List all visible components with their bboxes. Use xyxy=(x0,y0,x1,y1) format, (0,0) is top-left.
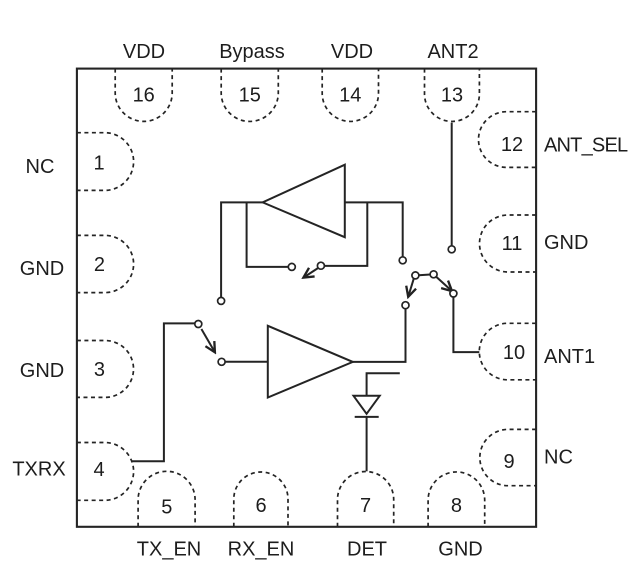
svg-text:ANT2: ANT2 xyxy=(427,41,478,63)
pin 5 pad xyxy=(138,471,195,526)
pin 9 pad xyxy=(480,429,536,485)
svg-text:2: 2 xyxy=(94,254,105,276)
svg-text:16: 16 xyxy=(133,84,155,106)
node C: bar left xyxy=(412,272,419,279)
svg-text:GND: GND xyxy=(438,539,482,561)
svg-text:ANT_SEL: ANT_SEL xyxy=(544,134,628,156)
svg-text:GND: GND xyxy=(544,232,588,254)
pin 11 pad xyxy=(480,215,537,272)
wire TXRX pin 4 to switch blade xyxy=(132,323,195,461)
svg-text:11: 11 xyxy=(502,233,523,255)
pin 14 pad xyxy=(322,69,378,122)
svg-text:7: 7 xyxy=(360,495,371,517)
wire bypass switch right branch xyxy=(324,202,367,266)
svg-text:4: 4 xyxy=(93,459,104,481)
svg-text:NC: NC xyxy=(26,156,55,178)
node F: U2 output terminal xyxy=(402,302,409,309)
svg-text:1: 1 xyxy=(93,153,104,175)
diode D1 (detector) xyxy=(354,396,380,414)
svg-text:ANT1: ANT1 xyxy=(544,346,595,368)
switch arrow bypass blade xyxy=(303,268,318,278)
svg-text:TX_EN: TX_EN xyxy=(137,539,201,561)
op-amp U2 (TX amplifier, pointing right) xyxy=(268,326,353,398)
node: bypass left contact xyxy=(288,263,295,270)
wire U2 input node xyxy=(225,361,268,363)
svg-text:DET: DET xyxy=(347,539,387,561)
pin 3 pad xyxy=(77,341,134,398)
pin 15 pad xyxy=(221,69,278,122)
svg-text:VDD: VDD xyxy=(123,41,165,63)
svg-text:GND: GND xyxy=(20,360,64,382)
node B: ANT2 terminal xyxy=(448,246,455,253)
svg-text:14: 14 xyxy=(339,84,361,106)
svg-text:VDD: VDD xyxy=(331,41,373,63)
wire node E to ANT1 pin 10 xyxy=(453,297,479,352)
pin 6 pad xyxy=(234,472,288,527)
switch arrow TXRX blade xyxy=(201,329,215,352)
wire diode to DET pin 7 xyxy=(366,417,368,471)
pin 1 pad xyxy=(77,133,134,191)
wire U1 input from switch A xyxy=(345,202,403,257)
node: U2 input terminal xyxy=(218,358,225,365)
node: U1 output terminal xyxy=(218,297,225,304)
node D: bar right xyxy=(430,271,437,278)
node E: ANT1 terminal xyxy=(450,290,457,297)
pin 16 pad xyxy=(115,69,172,122)
svg-text:NC: NC xyxy=(544,447,573,469)
pin 8 pad xyxy=(428,472,485,527)
pin 2 pad xyxy=(77,235,134,292)
wire bypass switch left branch xyxy=(247,202,289,267)
svg-text:TXRX: TXRX xyxy=(12,459,65,481)
switch arrow C to F xyxy=(408,279,414,297)
diode D1 cathode bar xyxy=(355,416,379,418)
pin 12 pad xyxy=(479,112,537,168)
svg-text:13: 13 xyxy=(441,84,463,106)
wire switch bar C-D xyxy=(419,274,431,277)
pin 4 pad xyxy=(77,443,134,501)
svg-text:3: 3 xyxy=(94,359,105,381)
node: TXRX blade pivot xyxy=(195,321,202,328)
package outline xyxy=(77,69,536,527)
svg-text:5: 5 xyxy=(161,496,172,518)
wire U1 output to node xyxy=(221,202,263,297)
svg-text:15: 15 xyxy=(239,84,261,106)
svg-text:9: 9 xyxy=(503,451,514,473)
switch arrow D to E xyxy=(436,277,452,291)
pin 10 pad xyxy=(479,323,536,380)
wire ANT2 from pin 13 xyxy=(451,123,453,246)
svg-text:RX_EN: RX_EN xyxy=(228,539,295,561)
pin 7 pad xyxy=(338,472,394,527)
svg-text:8: 8 xyxy=(451,495,462,517)
svg-text:12: 12 xyxy=(501,134,523,156)
node: bypass blade pivot xyxy=(317,262,324,269)
svg-text:6: 6 xyxy=(255,495,266,517)
svg-text:10: 10 xyxy=(503,342,525,364)
pin 13 pad xyxy=(425,69,480,122)
svg-text:GND: GND xyxy=(20,258,64,280)
wire detector tap xyxy=(367,373,400,396)
node A: U1 input terminal xyxy=(399,257,406,264)
wire node F to U2 output xyxy=(353,309,406,362)
svg-text:Bypass: Bypass xyxy=(219,41,285,63)
op-amp U1 (bypassable amplifier, pointing left) xyxy=(263,165,345,238)
